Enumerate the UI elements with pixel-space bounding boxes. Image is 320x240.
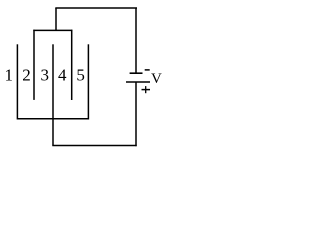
svg-text:4: 4 bbox=[58, 66, 67, 85]
wire bottom bus from plate 3 to battery positive terminal bbox=[52, 145, 136, 147]
wire stub from top bus down to top bracket bbox=[55, 8, 57, 30]
capacitor plate 2 bbox=[33, 30, 35, 100]
battery V negative plate (short) bbox=[130, 72, 143, 74]
wire right bottom vertical from battery to bottom bus bbox=[135, 82, 137, 146]
capacitor plate 5 bbox=[87, 44, 89, 119]
svg-text:5: 5 bbox=[76, 66, 85, 85]
wire top bus bbox=[55, 7, 137, 9]
capacitor plate 1 bbox=[16, 44, 18, 119]
svg-text:2: 2 bbox=[22, 66, 31, 85]
svg-text:3: 3 bbox=[40, 66, 49, 85]
svg-text:1: 1 bbox=[4, 66, 13, 85]
battery minus sign label bbox=[145, 69, 150, 71]
battery V positive plate (long) bbox=[126, 81, 150, 83]
wire right vertical from top bus to battery negative terminal bbox=[135, 8, 137, 73]
battery plus sign label bbox=[142, 89, 151, 91]
capacitor plate 3 bbox=[52, 44, 54, 145]
svg-text:V: V bbox=[151, 71, 162, 87]
capacitor plate 4 bbox=[71, 30, 73, 100]
wire bottom bracket joining plates 1, 3 and 5 bbox=[17, 118, 88, 120]
wire top bracket joining plates 2 and 4 bbox=[33, 29, 72, 31]
